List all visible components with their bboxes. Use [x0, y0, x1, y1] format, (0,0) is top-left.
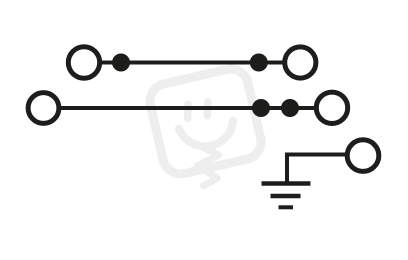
watermark left eye	[184, 104, 192, 118]
circuit level 2	[28, 92, 348, 123]
watermark smile	[179, 121, 233, 147]
watermark logo (rounded square face)	[146, 65, 264, 185]
wire level1	[100, 61, 284, 65]
ground bar 2	[271, 194, 301, 199]
circuit level 1	[68, 47, 316, 78]
terminal circle level1 left	[68, 47, 99, 78]
junction dot level1 left	[112, 54, 130, 72]
terminal circle level1 right	[285, 47, 316, 78]
watermark zigzag cable	[197, 145, 219, 186]
circuit level 3 : PE ground branch	[262, 140, 379, 208]
junction dot level2 right	[281, 99, 299, 117]
wire ground horizontal and vertical	[287, 155, 347, 185]
terminal circle level2 right	[316, 92, 347, 123]
wire level2	[59, 106, 316, 110]
terminal circle level2 left	[28, 93, 59, 124]
watermark right eye	[204, 102, 212, 116]
ground bar 3	[279, 205, 294, 209]
junction dot level1 right	[250, 54, 268, 72]
terminal circle ground	[347, 140, 379, 172]
junction dot level2 left	[252, 99, 270, 117]
ground bar 1	[262, 181, 311, 186]
watermark rounded square	[146, 65, 264, 177]
